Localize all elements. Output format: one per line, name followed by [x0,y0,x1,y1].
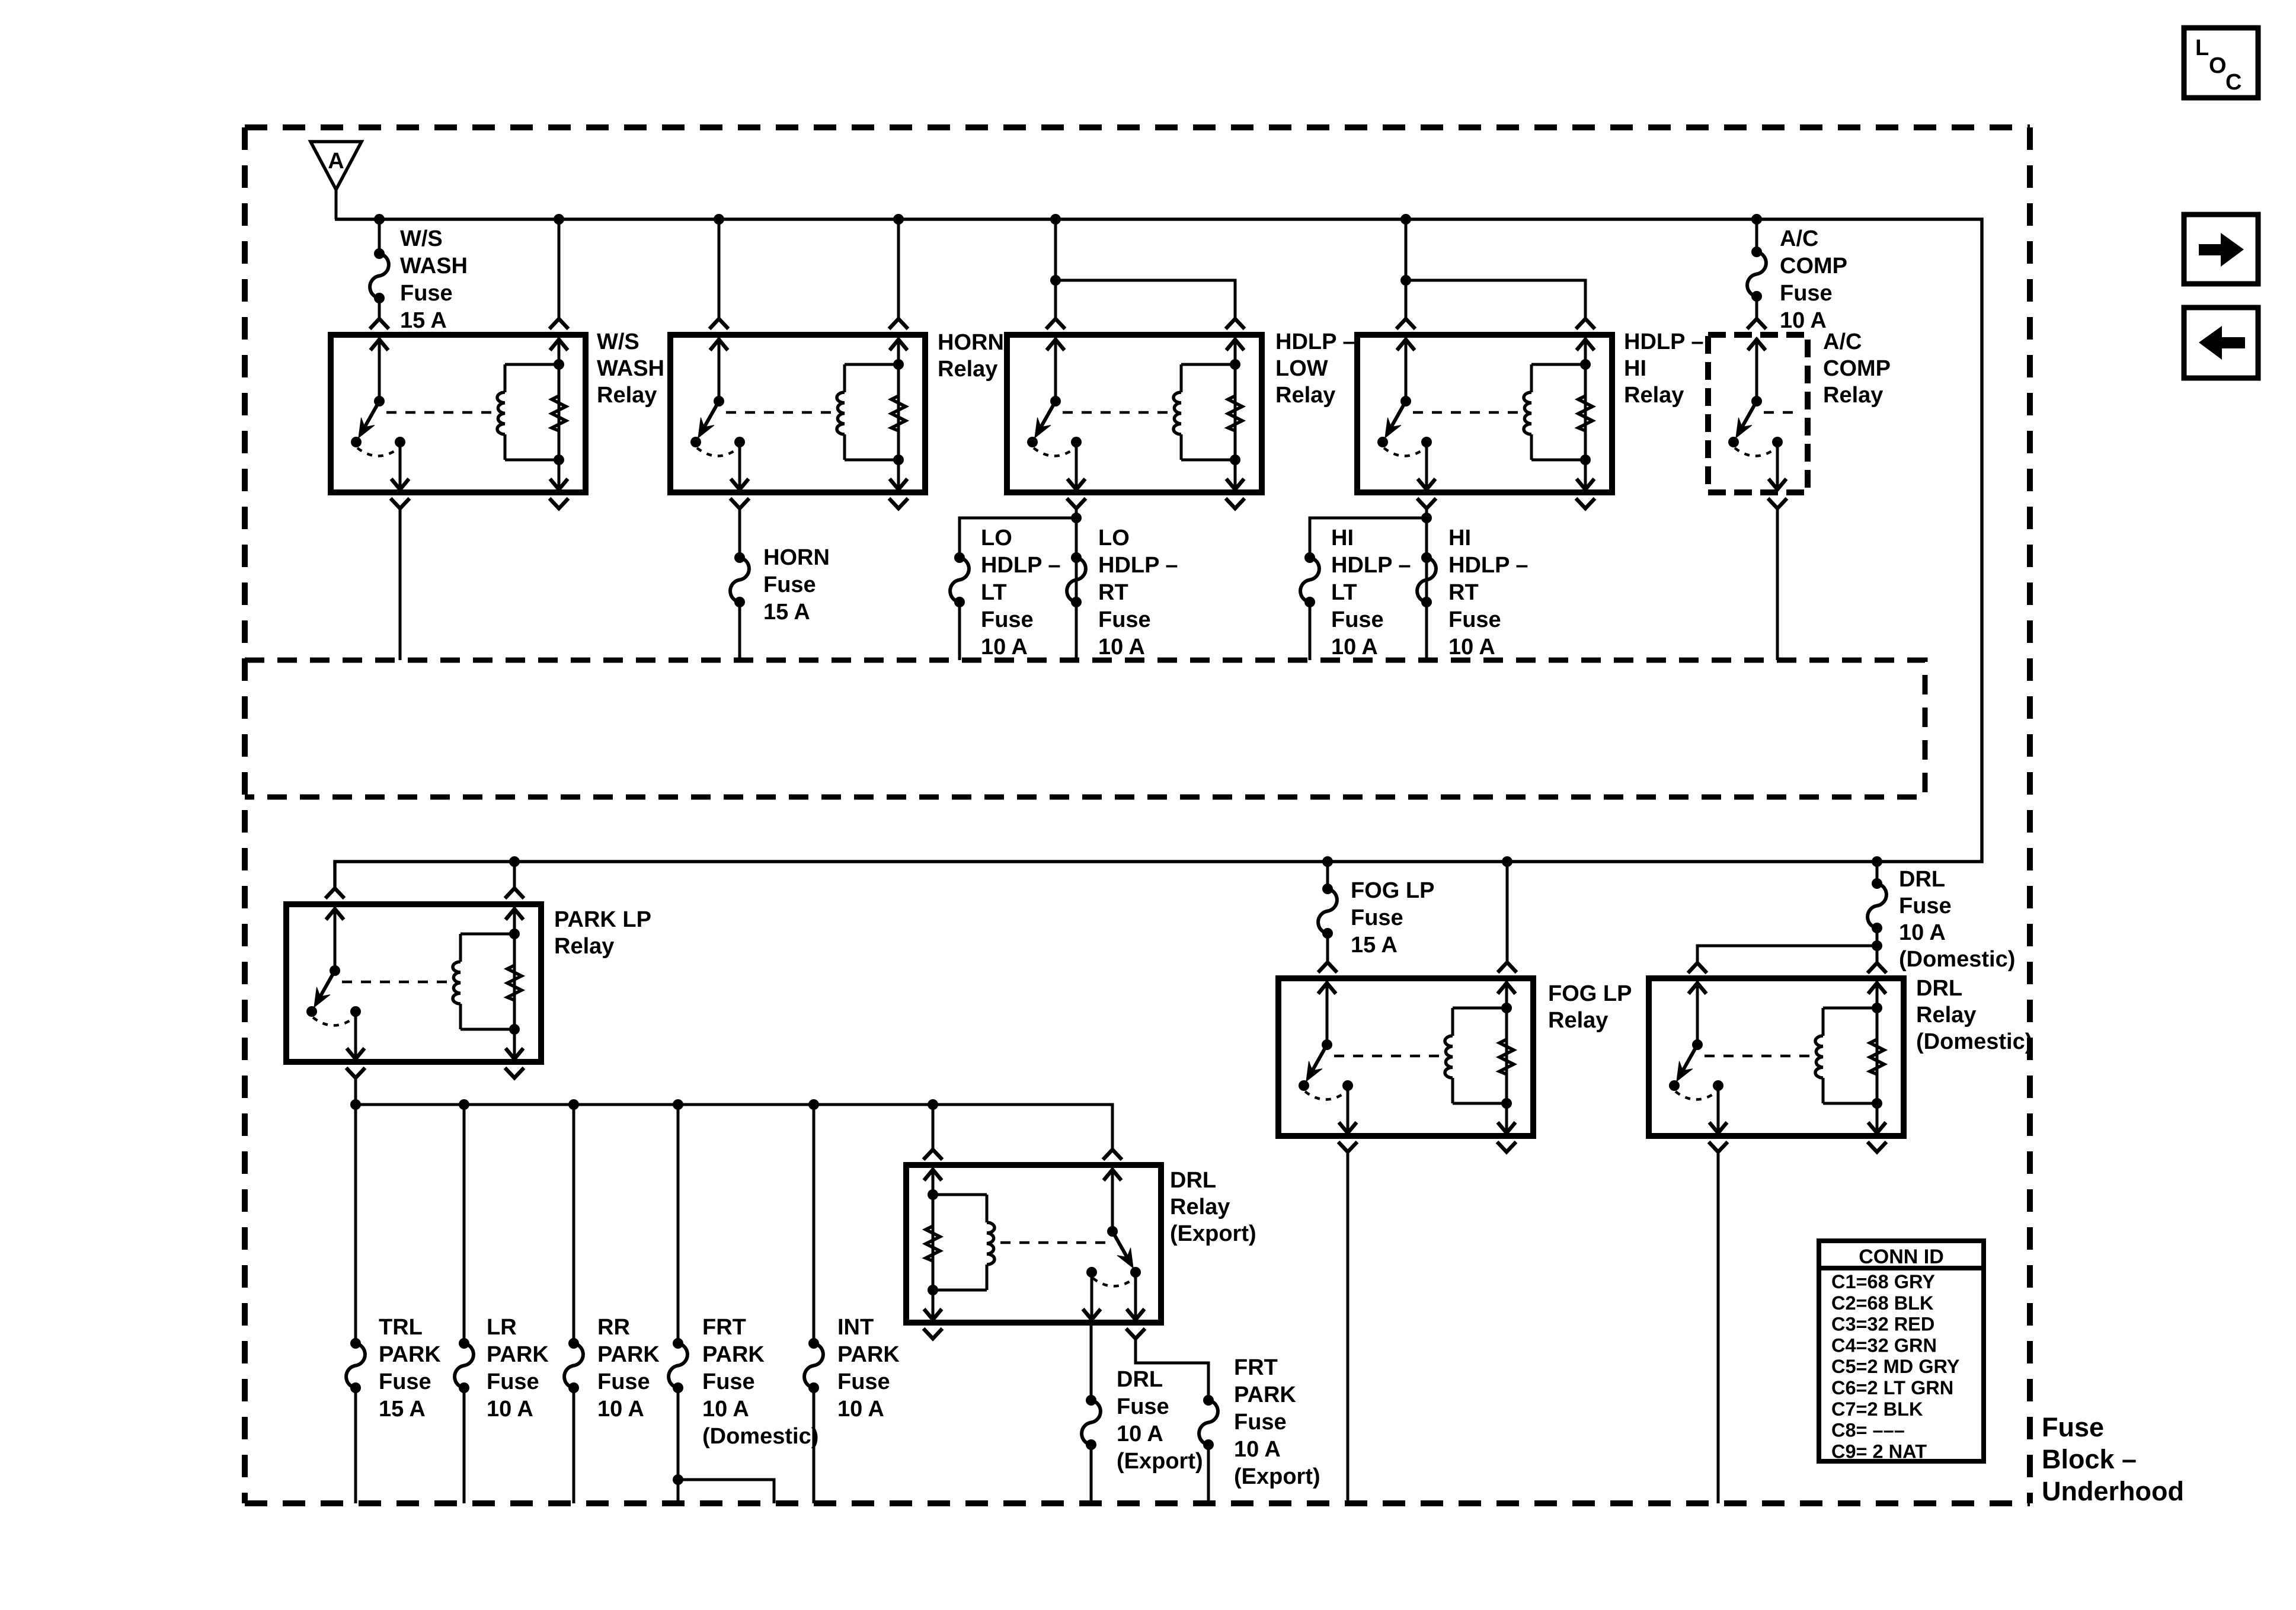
svg-text:(Export): (Export) [1170,1221,1256,1246]
svg-text:W/S: W/S [597,329,639,354]
relay HORN [670,335,925,492]
fuse INT PARK Fuse 10 A [804,1338,823,1393]
svg-text:DRL: DRL [1170,1168,1216,1193]
wire bus to PARK LP relay coil pin [513,862,516,888]
svg-text:RT: RT [1448,580,1479,605]
fuse HI HDLP-RT Fuse 10 A [1417,552,1436,607]
label HDLP - HI Relay [1624,329,1703,408]
connector fork HORN relay output [730,498,749,508]
svg-text:C7=2 BLK: C7=2 BLK [1831,1398,1923,1420]
svg-text:HDLP –: HDLP – [1331,553,1411,578]
wire branch to LO HDLP-LT fuse [960,518,1076,558]
connector fork HDLP-HI relay switch pin [1396,319,1415,329]
svg-text:10 A: 10 A [1098,635,1145,660]
svg-text:Fuse: Fuse [1331,607,1384,632]
svg-text:INT: INT [837,1315,874,1340]
svg-text:Underhood: Underhood [2042,1476,2184,1506]
fuse LO HDLP-LT Fuse 10 A [950,552,969,607]
wire DRL domestic fuse output [1876,928,1879,946]
svg-text:10 A: 10 A [1448,635,1495,660]
svg-text:Relay: Relay [1275,383,1335,408]
wire FRT PARK export jog [678,1480,774,1503]
svg-text:PARK: PARK [597,1342,660,1367]
connector fork FOG LP relay coil return [1497,1142,1516,1152]
svg-text:Relay: Relay [597,383,657,408]
svg-text:10 A: 10 A [1117,1422,1163,1446]
label FOG LP Relay [1548,981,1632,1033]
node bus junction A/C COMP fuse [1751,214,1762,225]
wire A/C COMP relay output to boundary [1776,508,1779,660]
svg-text:PARK LP: PARK LP [554,907,651,932]
wire bus to HORN relay switch pin [718,219,721,319]
node park bus LR junction [459,1099,469,1110]
svg-text:10 A: 10 A [837,1397,884,1422]
connector fork HDLP-HI relay coil return [1576,498,1595,508]
fuse HORN Fuse 15 A [730,552,749,607]
svg-text:HI: HI [1448,526,1471,550]
svg-text:LT: LT [1331,580,1357,605]
svg-text:(Domestic): (Domestic) [1899,947,2015,972]
label HORN Fuse 15 A [763,545,830,625]
node park bus TRL junction [350,1099,361,1110]
svg-text:Fuse: Fuse [2042,1412,2104,1442]
wire PARK LP relay output to park lamp bus [354,1078,357,1105]
svg-text:C1=68 GRY: C1=68 GRY [1831,1271,1935,1292]
svg-text:DRL: DRL [1117,1367,1163,1392]
svg-text:Relay: Relay [1823,383,1883,408]
label Fuse Block - Underhood [2042,1412,2184,1506]
connector fork HORN relay coil pin [889,319,908,329]
svg-text:HDLP –: HDLP – [981,553,1060,578]
svg-text:CONN ID: CONN ID [1859,1246,1944,1268]
connector fork A/C COMP relay pin [1747,319,1766,329]
node park bus FRT junction [673,1099,683,1110]
wire branch to HDLP-HI relay coil pin [1406,280,1585,319]
svg-text:Fuse: Fuse [1117,1394,1169,1419]
wire park bus to RR PARK fuse [573,1105,575,1343]
fuse FOG LP Fuse 15 A [1318,884,1337,939]
connector fork DRL export relay switch pin [1103,1150,1122,1160]
connector fork FOG LP relay coil pin [1498,962,1517,972]
svg-text:FRT: FRT [702,1315,746,1340]
node HDLP-HI feed branch [1400,275,1411,286]
svg-text:Relay: Relay [1624,383,1684,408]
svg-text:A/C: A/C [1823,329,1862,354]
wire park bus to TRL PARK fuse [354,1105,357,1343]
svg-text:Fuse: Fuse [400,281,453,306]
connector fork DRL export relay coil pin [923,1150,942,1160]
wire DRL domestic relay output to boundary [1717,1152,1720,1503]
fuse DRL Fuse 10 A Domestic [1868,878,1886,933]
svg-text:Fuse: Fuse [1351,905,1403,930]
wire TRL PARK fuse to boundary [354,1388,357,1503]
svg-text:C5=2 MD GRY: C5=2 MD GRY [1831,1356,1960,1377]
fuse W/S WASH Fuse 15 A [370,248,389,303]
wire FRT PARK export fuse to boundary [1207,1445,1210,1503]
connector fork W/S WASH relay coil return [549,498,568,508]
svg-text:C4=32 GRN: C4=32 GRN [1831,1334,1937,1356]
label HDLP - LOW Relay [1275,329,1355,408]
svg-text:FOG LP: FOG LP [1548,981,1632,1006]
svg-text:HORN: HORN [938,330,1004,355]
wire bus to W/S WASH relay coil pin [558,219,561,319]
svg-text:COMP: COMP [1823,356,1891,381]
svg-text:10 A: 10 A [487,1397,533,1422]
node HDLP-LOW output branch [1071,513,1082,523]
label HORN Relay [938,330,1004,382]
svg-text:Relay: Relay [1916,1003,1976,1028]
svg-text:DRL: DRL [1899,867,1945,892]
label FRT PARK Fuse 10 A Domestic [702,1315,818,1449]
svg-text:HI: HI [1331,526,1354,550]
node bus junction PARK LP relay coil [509,856,520,867]
wire bus to W/S WASH fuse [378,219,381,254]
wire park lamp distribution bus [356,1105,1112,1150]
connector fork HDLP-LOW relay switch pin [1046,319,1065,329]
svg-text:LOW: LOW [1275,356,1328,381]
wire DRL domestic fuse to relay coil pin [1876,946,1879,963]
connector fork HORN relay switch pin [709,319,728,329]
node bus junction DRL fuse domestic [1872,856,1882,867]
LOC reference box [2184,28,2258,98]
svg-text:HDLP –: HDLP – [1624,329,1703,354]
node bus junction HDLP-HI relay [1400,214,1411,225]
wire FOG LP relay output to boundary [1347,1152,1350,1503]
fuse DRL Fuse 10 A Export [1082,1395,1101,1450]
svg-text:10 A: 10 A [597,1397,644,1422]
svg-text:LO: LO [1098,526,1130,550]
arrow box left [2184,308,2258,378]
fuse FRT PARK Fuse 10 A Domestic [669,1338,687,1393]
svg-text:10 A: 10 A [1899,920,1946,945]
wire park bus to LR PARK fuse [463,1105,466,1343]
svg-text:Relay: Relay [1548,1008,1608,1033]
svg-text:10 A: 10 A [1331,635,1378,660]
svg-text:15 A: 15 A [400,308,447,333]
relay HDLP-HI [1357,335,1612,492]
svg-text:A: A [328,149,344,174]
connector fork W/S WASH relay pin 1 [370,319,389,329]
wire bus to HDLP-HI relay switch pin [1405,219,1408,319]
relay PARK LP [286,904,541,1062]
svg-text:10 A: 10 A [981,635,1028,660]
wire branch to HI HDLP-LT fuse [1310,518,1427,558]
wire bus to HORN relay coil pin [897,219,900,319]
wire HORN relay output to fuse [738,508,741,558]
svg-text:Relay: Relay [554,934,614,959]
label A/C COMP Relay [1823,329,1891,408]
svg-text:PARK: PARK [379,1342,441,1367]
wire HDLP-LOW relay output [1075,508,1078,660]
node bus junction W/S WASH fuse [374,214,385,225]
svg-text:TRL: TRL [379,1315,423,1340]
node HDLP-HI output branch [1421,513,1432,523]
wire bus to FOG LP relay coil pin [1506,862,1509,962]
svg-text:HDLP –: HDLP – [1098,553,1178,578]
label DRL Relay (Domestic) [1916,976,2032,1054]
node bus junction HDLP-LOW relay [1050,214,1061,225]
label DRL Fuse 10 A (Domestic) [1899,867,2015,972]
svg-text:LT: LT [981,580,1007,605]
svg-text:O: O [2209,53,2227,78]
svg-text:10 A: 10 A [702,1397,749,1422]
node HDLP-LOW feed branch [1050,275,1061,286]
fuse block outer dashed border right [2027,127,2033,1503]
wire HORN fuse to boundary [738,602,741,660]
wire HDLP-HI relay output [1425,508,1428,660]
svg-text:DRL: DRL [1916,976,1962,1001]
svg-text:15 A: 15 A [763,600,810,625]
connector fork DRL export relay output [1126,1329,1145,1339]
wire LR PARK fuse to boundary [463,1388,466,1503]
wire DRL export relay left contact to DRL fuse [1090,1323,1093,1400]
node bus junction W/S WASH relay coil [554,214,564,225]
label LO HDLP-RT Fuse 10 A [1098,526,1178,660]
svg-text:Fuse: Fuse [1234,1410,1287,1435]
svg-text:Fuse: Fuse [1448,607,1501,632]
relay DRL (Domestic) [1649,978,1904,1136]
connector fork HDLP-HI relay coil pin [1576,319,1595,329]
node bus junction HORN relay coil [893,214,904,225]
wire RR PARK fuse to boundary [573,1388,575,1503]
svg-text:PARK: PARK [487,1342,549,1367]
wire bus to FOG LP fuse [1326,862,1329,889]
connector fork W/S WASH relay coil pin [549,319,568,329]
connector fork PARK LP relay coil pin [505,888,524,898]
wire A/C COMP fuse to relay [1755,296,1758,319]
svg-text:Fuse: Fuse [1899,894,1952,918]
svg-text:Relay: Relay [1170,1195,1230,1219]
svg-text:C8= –––: C8= ––– [1831,1420,1905,1441]
svg-text:Fuse: Fuse [981,607,1034,632]
fuse block outer dashed border bottom [245,1500,2030,1506]
node bus junction HORN relay switch [714,214,724,225]
label FOG LP Fuse 15 A [1351,878,1434,958]
wire branch to HDLP-LOW relay coil pin [1056,280,1235,319]
label TRL PARK Fuse 15 A [379,1315,441,1422]
connector fork PARK LP relay coil return [505,1068,524,1078]
label DRL Relay (Export) [1170,1168,1256,1246]
connector fork DRL domestic relay coil pin [1868,963,1886,973]
wire park bus to INT PARK fuse [813,1105,816,1343]
svg-text:Fuse: Fuse [837,1369,890,1394]
svg-text:FOG LP: FOG LP [1351,878,1434,903]
label PARK LP Relay [554,907,651,959]
wire DRL export fuse to boundary [1090,1445,1093,1503]
svg-text:Fuse: Fuse [487,1369,539,1394]
svg-text:C3=32 RED: C3=32 RED [1831,1314,1934,1335]
svg-text:C2=68 BLK: C2=68 BLK [1831,1292,1934,1314]
svg-text:HI: HI [1624,356,1646,381]
svg-text:WASH: WASH [597,356,664,381]
svg-text:W/S: W/S [400,226,443,251]
fuse HI HDLP-LT Fuse 10 A [1300,552,1319,607]
svg-text:FRT: FRT [1234,1355,1278,1380]
label LR PARK Fuse 10 A [487,1315,549,1422]
relay DRL (Export) [906,1165,1161,1323]
node park bus DRL export coil junction [928,1099,938,1110]
node FRT PARK export branch [673,1474,683,1485]
label W/S WASH Fuse 15 A [400,226,468,333]
connector fork DRL domestic relay coil return [1868,1142,1886,1152]
svg-text:(Export): (Export) [1234,1464,1320,1489]
label HI HDLP-LT Fuse 10 A [1331,526,1411,660]
label FRT PARK Fuse 10 A (Export) [1234,1355,1320,1489]
connector fork FOG LP relay switch pin [1318,962,1337,972]
fuse A/C COMP Fuse 10 A [1747,247,1766,302]
svg-text:LR: LR [487,1315,517,1340]
wire bus to DRL domestic fuse [1876,862,1879,884]
connector fork W/S WASH relay output [391,498,410,508]
node park bus INT junction [808,1099,819,1110]
wire HI HDLP-LT fuse to boundary [1309,602,1312,660]
svg-text:10 A: 10 A [1234,1437,1281,1462]
connector ID table [1819,1241,1984,1462]
wire FRT PARK fuse to boundary [677,1388,680,1503]
fuse LO HDLP-RT Fuse 10 A [1067,552,1086,607]
connector fork DRL domestic relay switch pin [1688,963,1707,973]
wire main feed bus [335,219,1982,888]
fuse RR PARK Fuse 10 A [564,1338,583,1393]
label LO HDLP-LT Fuse 10 A [981,526,1060,660]
relay A/C COMP [1708,335,1808,492]
node DRL domestic fuse output branch [1872,940,1882,951]
fuse block outer dashed border top [245,124,2030,130]
connector fork HDLP-LOW relay coil return [1226,498,1245,508]
wire bus to HDLP-LOW relay switch pin [1054,219,1057,319]
fuse TRL PARK Fuse 15 A [346,1338,365,1393]
svg-text:L: L [2195,36,2209,60]
svg-text:Fuse: Fuse [1098,607,1151,632]
svg-text:LO: LO [981,526,1012,550]
wire park bus to DRL export relay coil pin [932,1105,935,1150]
svg-text:Fuse: Fuse [1780,281,1833,306]
relay HDLP-LOW [1007,335,1262,492]
svg-text:Block –: Block – [2042,1444,2137,1474]
svg-text:PARK: PARK [1234,1382,1296,1407]
fuse FRT PARK Fuse 10 A Export [1199,1395,1218,1450]
fuse block outer dashed border left [242,127,248,1503]
svg-text:HDLP –: HDLP – [1448,553,1528,578]
svg-text:HDLP –: HDLP – [1275,329,1355,354]
label RR PARK Fuse 10 A [597,1315,660,1422]
wire from triangle A to bus [335,188,338,219]
label INT PARK Fuse 10 A [837,1315,900,1422]
svg-text:COMP: COMP [1780,254,1847,279]
connector fork HDLP-HI relay output [1417,498,1436,508]
connector fork HDLP-LOW relay coil pin [1226,319,1245,329]
wire INT PARK fuse to boundary [813,1388,816,1503]
node bus junction FOG LP fuse [1322,856,1333,867]
connector fork HDLP-LOW relay output [1067,498,1086,508]
label W/S WASH Relay [597,329,664,408]
svg-text:C9= 2 NAT: C9= 2 NAT [1831,1441,1927,1462]
svg-text:(Domestic): (Domestic) [702,1424,818,1449]
connector fork DRL export relay coil return [923,1329,942,1339]
svg-text:PARK: PARK [837,1342,900,1367]
svg-text:A/C: A/C [1780,226,1818,251]
label DRL Fuse 10 A (Export) [1117,1367,1203,1474]
svg-text:(Domestic): (Domestic) [1916,1029,2032,1054]
svg-text:WASH: WASH [400,254,468,279]
relay W/S WASH [331,335,586,492]
svg-text:Fuse: Fuse [379,1369,431,1394]
wire W/S WASH fuse to relay [378,298,381,319]
svg-text:Fuse: Fuse [702,1369,755,1394]
svg-text:HORN: HORN [763,545,830,570]
svg-text:C6=2 LT GRN: C6=2 LT GRN [1831,1377,1953,1398]
wire FOG LP fuse to relay [1326,933,1329,962]
wire bus to A/C COMP fuse [1755,219,1758,252]
node park bus RR junction [568,1099,579,1110]
svg-text:Fuse: Fuse [763,572,816,597]
wire LO HDLP-LT fuse to boundary [958,602,961,660]
connector fork FOG LP relay output [1338,1142,1357,1152]
connector fork PARK LP relay output [346,1068,365,1078]
fuse LR PARK Fuse 10 A [455,1338,474,1393]
svg-text:15 A: 15 A [379,1397,426,1422]
power feed connector triangle A [311,142,362,190]
dashed internal divider between top and bottom sections [245,660,1925,797]
svg-text:Relay: Relay [938,357,997,382]
svg-text:Fuse: Fuse [597,1369,650,1394]
svg-text:15 A: 15 A [1351,933,1398,958]
connector fork A/C COMP relay output [1768,498,1787,508]
svg-text:RR: RR [597,1315,630,1340]
svg-text:PARK: PARK [702,1342,765,1367]
arrow box right [2184,215,2258,284]
wire DRL export relay output jog to FRT PARK export fuse [1136,1339,1208,1400]
svg-text:10 A: 10 A [1780,308,1827,333]
node bus junction FOG LP relay coil [1502,856,1512,867]
connector fork PARK LP relay switch pin [325,888,344,898]
connector fork DRL domestic relay output [1709,1142,1728,1152]
svg-text:RT: RT [1098,580,1128,605]
svg-text:C: C [2225,70,2241,95]
wire branch to DRL domestic relay switch pin [1697,946,1877,963]
connector fork HORN relay coil return [889,498,908,508]
label HI HDLP-RT Fuse 10 A [1448,526,1528,660]
wire W/S WASH relay output to boundary [399,508,402,660]
wire park bus to FRT PARK fuse [677,1105,680,1343]
svg-text:(Export): (Export) [1117,1449,1203,1474]
label A/C COMP Fuse 10 A [1780,226,1847,333]
relay FOG LP [1278,978,1533,1136]
